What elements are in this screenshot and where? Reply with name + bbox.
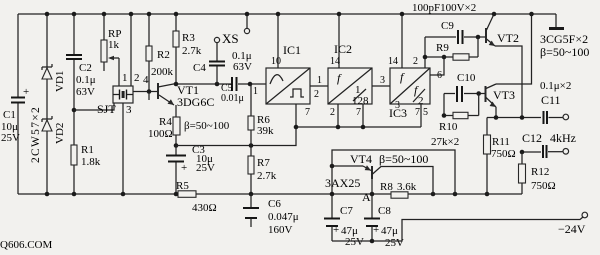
svg-text:2: 2 [330,107,335,118]
resistor R2 [148,14,150,92]
wire RP wiper to SJT pin1 [118,58,120,86]
svg-text:IC1: IC1 [283,43,301,57]
svg-text:25V: 25V [385,237,404,249]
wire C2 to SJT pin [74,103,114,110]
capacitor C3 [175,146,177,195]
svg-text:750Ω: 750Ω [531,180,556,192]
wire IC3 pin6 [430,57,444,75]
resistor R3 [175,14,177,84]
node R4/C3 [174,143,179,148]
svg-text:1: 1 [317,75,322,86]
capacitor C7 [331,194,333,218]
svg-text:+: + [23,86,29,98]
svg-text:R8: R8 [380,181,393,193]
svg-text:Q606.COM: Q606.COM [0,239,52,251]
svg-text:C7: C7 [340,205,353,217]
node A [370,192,375,197]
svg-text:C1: C1 [3,109,16,121]
svg-text:2: 2 [413,56,418,67]
svg-text:R4: R4 [159,116,172,128]
svg-text:β=50~100: β=50~100 [184,120,230,132]
capacitor C4 [216,43,218,84]
svg-text:0.1μ×2: 0.1μ×2 [540,80,571,92]
svg-text:−24V: −24V [558,222,586,236]
IC op-amp IC1 [266,68,310,104]
svg-text:C4: C4 [193,62,206,74]
wire top rail [18,13,556,15]
resistor R11 [486,118,488,195]
node C2-SJT junction [72,108,77,113]
resistor R7 [250,146,252,195]
svg-text:0.047μ: 0.047μ [268,211,299,223]
wire emitter rail right [408,193,522,195]
capacitor C10 [444,93,455,95]
svg-text:10: 10 [271,56,281,67]
svg-text:3CG5F×2: 3CG5F×2 [540,32,588,46]
wire emitter node to R6/IC1 pin7 [176,127,296,146]
svg-text:63V: 63V [233,61,252,73]
svg-text:100Ω: 100Ω [148,128,173,140]
wire IC2 pin7 [362,104,364,127]
svg-text:1: 1 [253,86,258,97]
svg-text:SJT: SJT [97,102,116,116]
svg-text:R2: R2 [157,49,170,61]
svg-text:7: 7 [305,107,310,118]
svg-text:R5: R5 [176,180,189,192]
svg-text:430Ω: 430Ω [192,202,217,214]
svg-text:VD2: VD2 [54,123,66,144]
wire IC2 pin2 [337,104,339,127]
transistor VT4 [371,166,373,179]
wire VT3 emitter to C11 [487,117,541,119]
svg-text:+: + [181,162,187,174]
svg-text:750Ω: 750Ω [491,148,516,160]
svg-text:27k×2: 27k×2 [431,136,459,148]
node VT1 base [147,89,152,94]
svg-text:R7: R7 [257,157,270,169]
wire IC1 pin7 [295,104,297,127]
resistor R9 [425,56,453,58]
wire IC1 to IC2 [310,85,328,87]
svg-text:1: 1 [122,72,128,84]
svg-text:7: 7 [415,107,420,118]
svg-text:3: 3 [380,75,385,86]
svg-text:VT3: VT3 [493,88,515,102]
diode VD1 (zener) [46,14,48,194]
diode VD2 (zener) [42,116,52,122]
svg-text:VT2: VT2 [497,31,519,45]
svg-text:R11: R11 [492,136,510,148]
svg-text:R9: R9 [436,42,449,54]
capacitor C8 [371,194,373,218]
capacitor C9 [425,36,456,38]
crystal SJT [113,86,133,103]
wire IC3 pin2 riser [424,37,426,68]
wire IC3 pin7 [420,104,422,127]
transistor VT3 [485,86,487,102]
svg-text:39k: 39k [257,125,274,137]
svg-text:2: 2 [314,89,319,100]
svg-text:+: + [373,224,379,236]
wire C2/R1 branch [73,14,75,194]
wire VT1 collector node to IC1 [176,83,231,85]
IC divider IC2 [328,68,372,104]
svg-text:C2: C2 [79,62,92,74]
capacitor C11 [544,111,548,124]
socket XS [246,14,248,28]
svg-text:3: 3 [126,104,132,116]
capacitor C5 [232,77,237,91]
resistor R12 [521,152,523,194]
svg-text:+: + [333,224,339,236]
wire VT3 collector riser [496,14,532,84]
svg-text:VT4: VT4 [350,152,372,166]
svg-text:25V: 25V [1,132,20,144]
svg-text:47μ: 47μ [381,225,398,237]
wire pins bus [296,126,421,128]
svg-text:0.1μ: 0.1μ [76,74,96,86]
svg-text:A: A [362,190,371,204]
svg-text:IC2: IC2 [334,42,352,56]
svg-text:β=50~100: β=50~100 [540,45,589,59]
svg-text:R3: R3 [182,32,195,44]
resistor R1 [71,145,77,165]
svg-text:2CW57×2: 2CW57×2 [30,106,42,163]
svg-text:200k: 200k [151,66,174,78]
resistor R4 [175,105,177,146]
svg-text:C12: C12 [522,131,542,145]
svg-text:1k: 1k [108,39,120,51]
svg-text:4: 4 [143,74,149,86]
wire IC2 to IC3 [372,85,390,87]
svg-text:128: 128 [352,95,369,107]
svg-text:C11: C11 [541,93,561,107]
svg-text:C8: C8 [378,205,391,217]
transistor VT1 [157,83,159,99]
IC divider IC3 [390,68,430,104]
resistor R8 [391,192,408,198]
svg-text:25V: 25V [345,236,364,248]
svg-text:25V: 25V [196,162,215,174]
resistor R10 [443,94,445,116]
svg-text:5: 5 [423,107,428,118]
wire left vertical [17,14,19,194]
capacitor C2 [66,55,82,59]
wire VT4 loop [332,150,455,194]
svg-text:2: 2 [134,72,140,84]
svg-text:2.7k: 2.7k [257,170,277,182]
svg-text:XS: XS [222,31,239,46]
svg-text:R1: R1 [81,144,94,156]
svg-text:100pF100V×2: 100pF100V×2 [412,2,476,14]
svg-text:3DG6C: 3DG6C [177,95,214,109]
svg-text:C10: C10 [457,72,476,84]
svg-text:7: 7 [356,107,361,118]
wire top rail dots [45,12,50,17]
svg-text:R12: R12 [531,166,549,178]
wire -24V rail [332,217,583,241]
ground [555,14,557,27]
svg-text:160V: 160V [268,224,293,236]
svg-text:R10: R10 [439,121,458,133]
svg-text:4kHz: 4kHz [550,131,576,145]
svg-text:2.7k: 2.7k [182,45,202,57]
wire SJT pin3 down [122,103,124,194]
svg-text:VD1: VD1 [54,71,66,92]
svg-text:3AX25: 3AX25 [325,176,360,190]
svg-text:0.01μ: 0.01μ [221,93,244,104]
transistor VT2 [485,28,487,43]
capacitor C1 [11,98,25,103]
potentiometer RP [103,14,105,71]
wire SJT pin4 to VT1 base [133,91,158,93]
svg-text:IC3: IC3 [389,106,407,120]
resistor R5 (in bottom rail) [18,193,178,195]
wire SJT pin2 riser [130,14,132,86]
capacitor C12 [522,151,541,153]
svg-text:C6: C6 [268,198,281,210]
svg-text:β=50~100: β=50~100 [379,152,428,166]
capacitor C6 [250,194,252,208]
svg-text:1.8k: 1.8k [81,156,101,168]
resistor R6 [250,84,252,146]
wire VT2 emitter [495,46,522,118]
svg-text:C9: C9 [441,20,454,32]
svg-text:14: 14 [388,56,398,67]
svg-text:63V: 63V [76,86,95,98]
svg-text:3.6k: 3.6k [397,181,417,193]
